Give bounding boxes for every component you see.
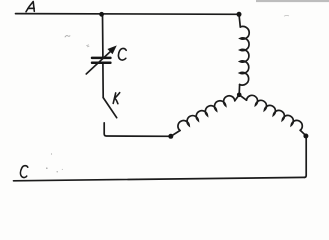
winding W1 humps — [178, 96, 235, 131]
star point node — [237, 93, 242, 98]
wire: phase line C (bottom horizontal) — [14, 177, 305, 180]
node: left winding terminal — [168, 134, 173, 139]
faint scan smudge left of arrow — [86, 45, 89, 47]
wire: right drop to line C — [304, 138, 306, 178]
winding W3 lead-out — [300, 130, 306, 135]
faint smudge right of coil — [284, 15, 289, 18]
junction node: line A / capacitor branch — [99, 12, 104, 17]
winding W3 lead-in from star point — [239, 95, 246, 100]
wire: line A to winding W2 — [239, 14, 240, 27]
winding W3 (right diagonal coil) humps — [247, 95, 303, 130]
winding W2 (vertical coil) humps — [240, 26, 250, 85]
winding W2 lead-out to star point — [238, 85, 240, 95]
wire: switch bottom stub and horizontal run to winding — [104, 123, 171, 137]
wire: capacitor branch drop from line A — [102, 14, 104, 56]
node: right winding terminal — [303, 134, 308, 139]
faint speck group near label C (phase) — [46, 153, 63, 172]
capacitor C bottom plate — [91, 62, 112, 65]
capacitor C top plate — [91, 57, 112, 60]
label C (phase) — [20, 166, 27, 178]
label C (capacitor) — [118, 48, 126, 60]
label K (switch) — [113, 93, 116, 104]
capacitor variable arrow — [86, 46, 116, 74]
switch K blade — [103, 98, 117, 118]
faint scan smudge near capacitor branch — [65, 36, 70, 38]
wire: phase line A (top horizontal) — [16, 13, 240, 16]
winding W1 lead-out to star point — [235, 95, 239, 101]
label A (phase) — [26, 2, 34, 12]
wire: between capacitor and switch — [102, 64, 104, 98]
junction node: line A end / winding W2 — [237, 12, 242, 17]
scan artifact streak top right — [256, 0, 329, 2]
winding W1 (left diagonal coil) lead-in — [171, 131, 180, 137]
